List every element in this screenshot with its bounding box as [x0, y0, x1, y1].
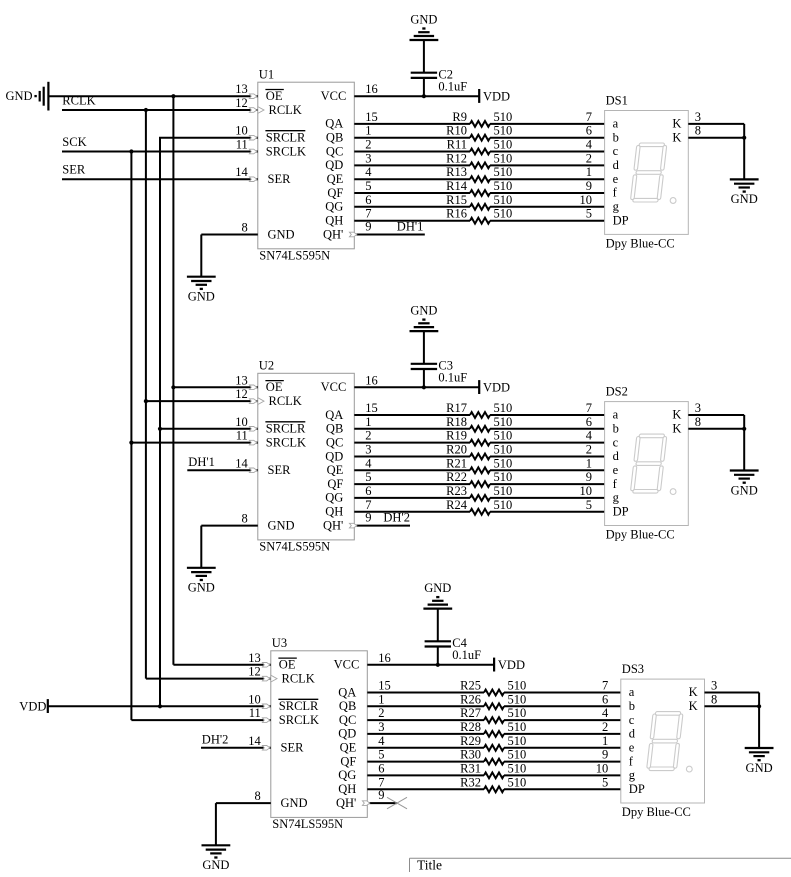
svg-text:5: 5	[586, 498, 592, 512]
wire GND pin 8 of U2	[201, 512, 257, 568]
wire OE bus elbow to pin 13 of U3	[173, 651, 270, 667]
net label SCK wire to SRCLK pin 11 of U1	[62, 135, 258, 154]
svg-text:10: 10	[580, 193, 593, 207]
svg-text:SRCLK: SRCLK	[279, 713, 319, 727]
wire VCC pin 16 of U3 to VDD	[367, 651, 494, 665]
svg-text:R26: R26	[460, 692, 481, 706]
svg-text:R25: R25	[460, 679, 481, 693]
svg-text:QF: QF	[327, 186, 343, 200]
capacitor C2 0.1uF	[411, 40, 468, 96]
svg-text:R27: R27	[460, 706, 481, 720]
svg-text:DH'1: DH'1	[188, 455, 215, 469]
junction node bus/U2 pin 10	[158, 427, 162, 431]
svg-text:510: 510	[508, 775, 527, 789]
display DS2 Dpy Blue-CC	[605, 385, 689, 542]
svg-text:1: 1	[365, 124, 371, 138]
svg-text:510: 510	[494, 124, 513, 138]
svg-text:6: 6	[365, 484, 371, 498]
ground U2	[187, 568, 216, 595]
net label DH'2 wire to SER pin 14 of U3	[201, 733, 271, 751]
svg-text:GND: GND	[731, 192, 758, 206]
svg-text:R9: R9	[452, 110, 467, 124]
svg-text:QE: QE	[327, 172, 344, 186]
power VDD at SRCLR of U3	[19, 692, 270, 713]
wire RCLK bus elbow to pin 12 of U3	[146, 665, 277, 682]
svg-text:SCK: SCK	[62, 135, 86, 149]
svg-text:QF: QF	[340, 754, 356, 768]
capacitor C4 0.1uF	[425, 609, 482, 665]
ground above C2	[410, 12, 439, 40]
resistor R16 510 with wire U1 7 to DS1 5	[354, 207, 604, 224]
svg-text:VCC: VCC	[321, 380, 347, 394]
svg-text:0.1uF: 0.1uF	[438, 80, 467, 94]
svg-text:QH': QH'	[323, 227, 343, 241]
svg-text:12: 12	[235, 387, 248, 401]
svg-text:g: g	[613, 200, 620, 214]
resistor R20 510 with wire U2 3 to DS2 2	[354, 443, 604, 460]
svg-text:510: 510	[494, 110, 513, 124]
resistor R32 510 with wire U3 7 to DS3 5	[367, 775, 621, 792]
svg-text:K: K	[672, 408, 681, 422]
svg-text:9: 9	[378, 788, 384, 802]
wire OE bus vertical	[172, 96, 174, 665]
svg-text:QA: QA	[338, 685, 356, 699]
svg-text:10: 10	[580, 484, 593, 498]
resistor R29 510 with wire U3 4 to DS3 1	[367, 734, 621, 751]
svg-text:3: 3	[365, 443, 371, 457]
svg-text:9: 9	[586, 179, 592, 193]
svg-text:2: 2	[602, 720, 608, 734]
svg-text:13: 13	[248, 651, 261, 665]
display DS3 Dpy Blue-CC	[621, 662, 705, 819]
svg-text:VDD: VDD	[498, 658, 525, 672]
junction node SCK/SRCLK bus	[129, 149, 133, 153]
svg-text:QF: QF	[327, 477, 343, 491]
svg-text:510: 510	[508, 679, 527, 693]
svg-text:510: 510	[494, 207, 513, 221]
wire bus to pin 10 of U2	[160, 415, 258, 431]
svg-text:10: 10	[235, 124, 248, 138]
resistor R14 510 with wire U1 5 to DS1 9	[354, 179, 604, 196]
wire SRCLR pin 10 of U1 from bus elbow	[160, 124, 258, 140]
svg-text:a: a	[613, 408, 619, 422]
junction node K	[742, 136, 746, 140]
svg-text:DH'1: DH'1	[397, 219, 424, 233]
wire bus to pin 12 of U2	[146, 387, 264, 404]
svg-text:QA: QA	[325, 408, 343, 422]
svg-text:U3: U3	[272, 636, 287, 650]
title block	[410, 858, 791, 873]
svg-text:Dpy Blue-CC: Dpy Blue-CC	[606, 236, 675, 250]
wire DS1 K pin 8	[688, 124, 744, 138]
svg-text:QH: QH	[325, 214, 343, 228]
svg-text:e: e	[629, 741, 635, 755]
resistor R24 510 with wire U2 7 to DS2 5	[354, 498, 604, 515]
svg-text:8: 8	[695, 124, 701, 138]
svg-text:510: 510	[494, 165, 513, 179]
svg-text:5: 5	[365, 179, 371, 193]
wire DS3 K pin 3	[705, 679, 760, 707]
svg-text:d: d	[629, 727, 636, 741]
resistor R30 510 with wire U3 5 to DS3 9	[367, 748, 621, 765]
svg-text:510: 510	[494, 456, 513, 470]
svg-text:0.1uF: 0.1uF	[452, 648, 481, 662]
svg-text:8: 8	[711, 692, 717, 706]
svg-text:d: d	[613, 449, 620, 463]
svg-text:OE: OE	[266, 380, 283, 394]
svg-text:GND: GND	[410, 304, 437, 318]
resistor R27 510 with wire U3 2 to DS3 4	[367, 706, 621, 723]
svg-text:QG: QG	[325, 200, 343, 214]
wire DS3 K pin 8	[705, 692, 760, 706]
net label DH'2 wire QH' pin 9 of U2	[349, 510, 410, 528]
svg-text:510: 510	[494, 179, 513, 193]
svg-text:R29: R29	[460, 734, 481, 748]
svg-text:d: d	[613, 158, 620, 172]
junction node bus/U2 pin 11	[129, 441, 133, 445]
svg-text:GND: GND	[410, 12, 437, 26]
svg-text:510: 510	[494, 498, 513, 512]
shift register U1 SN74LS595N	[258, 67, 355, 262]
svg-text:QH': QH'	[323, 518, 343, 532]
svg-text:QH': QH'	[336, 796, 356, 810]
svg-text:2: 2	[586, 151, 592, 165]
svg-text:GND: GND	[6, 89, 33, 103]
svg-text:SER: SER	[268, 463, 292, 477]
svg-text:510: 510	[508, 734, 527, 748]
net label DH'1 wire QH' pin 9 of U1	[349, 219, 424, 237]
svg-text:SER: SER	[281, 741, 305, 755]
decimal point of DS1	[670, 198, 676, 204]
svg-text:1: 1	[586, 165, 592, 179]
svg-text:GND: GND	[746, 761, 773, 775]
svg-text:R11: R11	[447, 138, 467, 152]
svg-text:R14: R14	[446, 179, 468, 193]
svg-text:R32: R32	[460, 775, 481, 789]
svg-text:GND: GND	[268, 518, 295, 532]
svg-text:SN74LS595N: SN74LS595N	[272, 817, 343, 831]
svg-text:1: 1	[378, 692, 384, 706]
resistor R23 510 with wire U2 6 to DS2 10	[354, 484, 604, 501]
svg-text:VDD: VDD	[483, 89, 510, 103]
resistor R19 510 with wire U2 2 to DS2 4	[354, 429, 604, 446]
svg-text:12: 12	[248, 665, 261, 679]
svg-text:3: 3	[711, 679, 717, 693]
ground U1	[187, 277, 216, 304]
svg-text:c: c	[613, 144, 619, 158]
svg-text:4: 4	[378, 734, 385, 748]
svg-text:GND: GND	[424, 581, 451, 595]
svg-text:R30: R30	[460, 748, 481, 762]
svg-text:SRCLK: SRCLK	[266, 435, 306, 449]
svg-text:DS1: DS1	[606, 94, 628, 108]
svg-text:14: 14	[235, 165, 248, 179]
svg-text:GND: GND	[731, 483, 758, 497]
svg-text:QG: QG	[325, 491, 343, 505]
svg-text:6: 6	[586, 415, 592, 429]
no-connect X marker	[387, 797, 407, 809]
svg-text:b: b	[613, 130, 619, 144]
svg-text:510: 510	[494, 484, 513, 498]
wire GND pin 8 of U1	[201, 221, 257, 277]
svg-text:SER: SER	[268, 172, 292, 186]
wire DS2 K pin 8	[688, 415, 744, 429]
net label DH'1 wire to SER pin 14 of U2	[187, 455, 257, 473]
svg-text:SRCLR: SRCLR	[266, 422, 306, 436]
shift register U2 SN74LS595N	[258, 359, 355, 554]
svg-text:14: 14	[248, 734, 261, 748]
ground above C3	[410, 304, 439, 332]
svg-text:R16: R16	[446, 207, 467, 221]
ground U3	[202, 845, 231, 872]
svg-text:e: e	[613, 463, 619, 477]
resistor R25 510 with wire U3 15 to DS3 7	[367, 679, 621, 696]
svg-text:QH: QH	[325, 505, 343, 519]
svg-text:11: 11	[236, 138, 248, 152]
svg-text:R21: R21	[446, 456, 467, 470]
svg-text:6: 6	[602, 692, 608, 706]
wire DS1 K pin 3	[688, 110, 744, 138]
svg-text:13: 13	[235, 373, 248, 387]
svg-text:VCC: VCC	[321, 89, 347, 103]
junction node VDD/SRCLR bus	[158, 704, 162, 708]
wire K junction down to ground	[743, 138, 745, 180]
svg-text:DH'2: DH'2	[383, 510, 410, 524]
svg-text:SRCLK: SRCLK	[266, 144, 306, 158]
decimal point of DS3	[686, 766, 692, 772]
wire VCC pin 16 of U2 to VDD	[354, 373, 479, 387]
svg-text:1: 1	[602, 734, 608, 748]
svg-text:6: 6	[365, 193, 371, 207]
svg-text:K: K	[672, 117, 681, 131]
svg-text:R23: R23	[446, 484, 467, 498]
display DS1 Dpy Blue-CC	[605, 94, 689, 251]
svg-text:8: 8	[242, 512, 248, 526]
svg-text:5: 5	[378, 748, 384, 762]
resistor R17 510 with wire U2 15 to DS2 7	[354, 401, 604, 418]
svg-text:VCC: VCC	[334, 657, 360, 671]
net label SER wire to pin 14 of U1	[62, 162, 258, 181]
net label RCLK wire to pin 12 of U1	[62, 94, 264, 114]
svg-text:4: 4	[586, 429, 593, 443]
svg-text:16: 16	[365, 82, 378, 96]
svg-text:9: 9	[586, 470, 592, 484]
svg-text:R18: R18	[446, 415, 467, 429]
svg-text:R28: R28	[460, 720, 481, 734]
wire QH' pin 9 of U3 (no connect)	[362, 788, 397, 806]
svg-text:4: 4	[586, 138, 593, 152]
resistor R10 510 with wire U1 1 to DS1 6	[354, 124, 604, 141]
svg-text:2: 2	[378, 706, 384, 720]
junction node bus/U2 pin 13	[171, 385, 175, 389]
svg-text:1: 1	[586, 456, 592, 470]
junction node OE bus	[171, 94, 175, 98]
svg-text:3: 3	[378, 720, 384, 734]
svg-text:510: 510	[494, 470, 513, 484]
svg-text:QE: QE	[340, 741, 357, 755]
svg-text:OE: OE	[266, 89, 283, 103]
svg-text:U2: U2	[259, 359, 274, 373]
power VDD	[479, 380, 510, 394]
wire K junction down to ground	[743, 429, 745, 471]
svg-text:7: 7	[586, 110, 592, 124]
resistor R9 510 with wire U1 15 to DS1 7	[354, 110, 604, 127]
7-segment digit of DS2	[630, 434, 667, 493]
wire DS2 K pin 3	[688, 401, 744, 429]
svg-text:510: 510	[494, 415, 513, 429]
svg-text:510: 510	[508, 748, 527, 762]
junction node VCC/C2	[422, 94, 426, 98]
svg-text:VDD: VDD	[483, 381, 510, 395]
svg-text:15: 15	[365, 110, 378, 124]
svg-text:DS3: DS3	[622, 662, 644, 676]
svg-text:QA: QA	[325, 117, 343, 131]
svg-text:15: 15	[378, 679, 391, 693]
svg-text:510: 510	[494, 138, 513, 152]
svg-text:6: 6	[378, 761, 384, 775]
junction node K	[757, 704, 761, 708]
svg-text:R13: R13	[446, 165, 467, 179]
svg-text:0.1uF: 0.1uF	[438, 371, 467, 385]
svg-text:Dpy Blue-CC: Dpy Blue-CC	[606, 528, 675, 542]
svg-text:R22: R22	[446, 470, 467, 484]
svg-text:QC: QC	[339, 713, 356, 727]
svg-text:DS2: DS2	[606, 385, 628, 399]
junction node VCC/C4	[436, 663, 440, 667]
svg-text:5: 5	[586, 207, 592, 221]
svg-text:QC: QC	[326, 435, 343, 449]
svg-text:510: 510	[494, 401, 513, 415]
svg-text:3: 3	[695, 110, 701, 124]
svg-text:7: 7	[602, 679, 608, 693]
svg-text:c: c	[629, 713, 635, 727]
svg-text:Title: Title	[417, 858, 442, 873]
wire SRCLK bus elbow to pin 11 of U3	[131, 706, 270, 722]
resistor R21 510 with wire U2 4 to DS2 1	[354, 456, 604, 473]
svg-text:15: 15	[365, 401, 378, 415]
wire SRCLR bus vertical	[159, 138, 161, 707]
svg-text:b: b	[613, 422, 619, 436]
power VDD	[494, 658, 525, 672]
wire SRCLK bus vertical	[130, 152, 132, 721]
svg-text:QB: QB	[326, 131, 343, 145]
svg-text:RCLK: RCLK	[269, 394, 302, 408]
svg-text:510: 510	[508, 720, 527, 734]
svg-text:GND: GND	[188, 290, 215, 304]
svg-text:12: 12	[235, 96, 248, 110]
svg-text:QD: QD	[325, 158, 343, 172]
svg-text:8: 8	[695, 415, 701, 429]
svg-text:9: 9	[602, 748, 608, 762]
svg-text:b: b	[629, 699, 635, 713]
svg-text:510: 510	[508, 706, 527, 720]
svg-text:11: 11	[236, 429, 248, 443]
resistor R31 510 with wire U3 6 to DS3 10	[367, 761, 621, 778]
svg-text:DP: DP	[613, 213, 629, 227]
svg-text:SER: SER	[62, 162, 86, 176]
svg-text:2: 2	[586, 443, 592, 457]
svg-text:DH'2: DH'2	[202, 733, 229, 747]
svg-text:R20: R20	[446, 443, 467, 457]
ground above C4	[423, 581, 452, 609]
svg-text:g: g	[613, 491, 620, 505]
resistor R12 510 with wire U1 3 to DS1 2	[354, 151, 604, 168]
svg-text:4: 4	[602, 706, 609, 720]
svg-text:13: 13	[235, 82, 248, 96]
svg-text:3: 3	[695, 401, 701, 415]
resistor R13 510 with wire U1 4 to DS1 1	[354, 165, 604, 182]
resistor R28 510 with wire U3 3 to DS3 2	[367, 720, 621, 737]
svg-text:c: c	[613, 435, 619, 449]
ground chassis GND at OE input	[6, 82, 49, 111]
wire GND to OE pin 13 of U1	[48, 82, 257, 98]
resistor R15 510 with wire U1 6 to DS1 10	[354, 193, 604, 210]
svg-text:R24: R24	[446, 498, 468, 512]
wire K junction down to ground	[758, 706, 760, 748]
svg-text:R19: R19	[446, 429, 467, 443]
svg-text:R15: R15	[446, 193, 467, 207]
svg-text:510: 510	[494, 151, 513, 165]
svg-text:9: 9	[365, 510, 371, 524]
wire bus to pin 11 of U2	[131, 429, 257, 445]
svg-text:SN74LS595N: SN74LS595N	[259, 248, 330, 262]
svg-text:3: 3	[365, 151, 371, 165]
svg-text:1: 1	[365, 415, 371, 429]
ground DS2	[730, 471, 759, 498]
svg-text:7: 7	[586, 401, 592, 415]
svg-text:2: 2	[365, 138, 371, 152]
wire VCC pin 16 of U1 to VDD	[354, 82, 479, 96]
svg-text:14: 14	[235, 456, 248, 470]
svg-text:R31: R31	[460, 761, 481, 775]
svg-text:4: 4	[365, 456, 372, 470]
svg-text:10: 10	[596, 761, 609, 775]
svg-text:DP: DP	[629, 782, 645, 796]
junction node VCC/C3	[422, 385, 426, 389]
svg-text:4: 4	[365, 165, 372, 179]
resistor R26 510 with wire U3 1 to DS3 6	[367, 692, 621, 709]
svg-text:2: 2	[365, 429, 371, 443]
svg-text:U1: U1	[259, 67, 274, 81]
junction node K	[742, 427, 746, 431]
resistor R11 510 with wire U1 2 to DS1 4	[354, 138, 604, 155]
7-segment digit of DS3	[646, 712, 683, 771]
svg-text:K: K	[689, 685, 698, 699]
svg-text:8: 8	[255, 789, 261, 803]
svg-text:VDD: VDD	[19, 700, 46, 714]
svg-text:510: 510	[508, 692, 527, 706]
junction node RCLK bus	[144, 108, 148, 112]
svg-text:SN74LS595N: SN74LS595N	[259, 540, 330, 554]
svg-text:510: 510	[494, 443, 513, 457]
svg-text:6: 6	[586, 124, 592, 138]
7-segment digit of DS1	[630, 143, 667, 202]
svg-text:RCLK: RCLK	[269, 103, 302, 117]
svg-text:QE: QE	[327, 463, 344, 477]
svg-text:R17: R17	[446, 401, 467, 415]
svg-text:a: a	[629, 685, 635, 699]
power VDD	[479, 89, 510, 103]
ground DS1	[730, 179, 759, 206]
svg-text:GND: GND	[281, 796, 308, 810]
resistor R22 510 with wire U2 5 to DS2 9	[354, 470, 604, 487]
svg-text:QH: QH	[338, 782, 356, 796]
svg-text:K: K	[689, 699, 698, 713]
svg-text:QC: QC	[326, 144, 343, 158]
svg-text:QG: QG	[338, 768, 356, 782]
svg-text:GND: GND	[202, 858, 229, 872]
svg-text:DP: DP	[613, 505, 629, 519]
